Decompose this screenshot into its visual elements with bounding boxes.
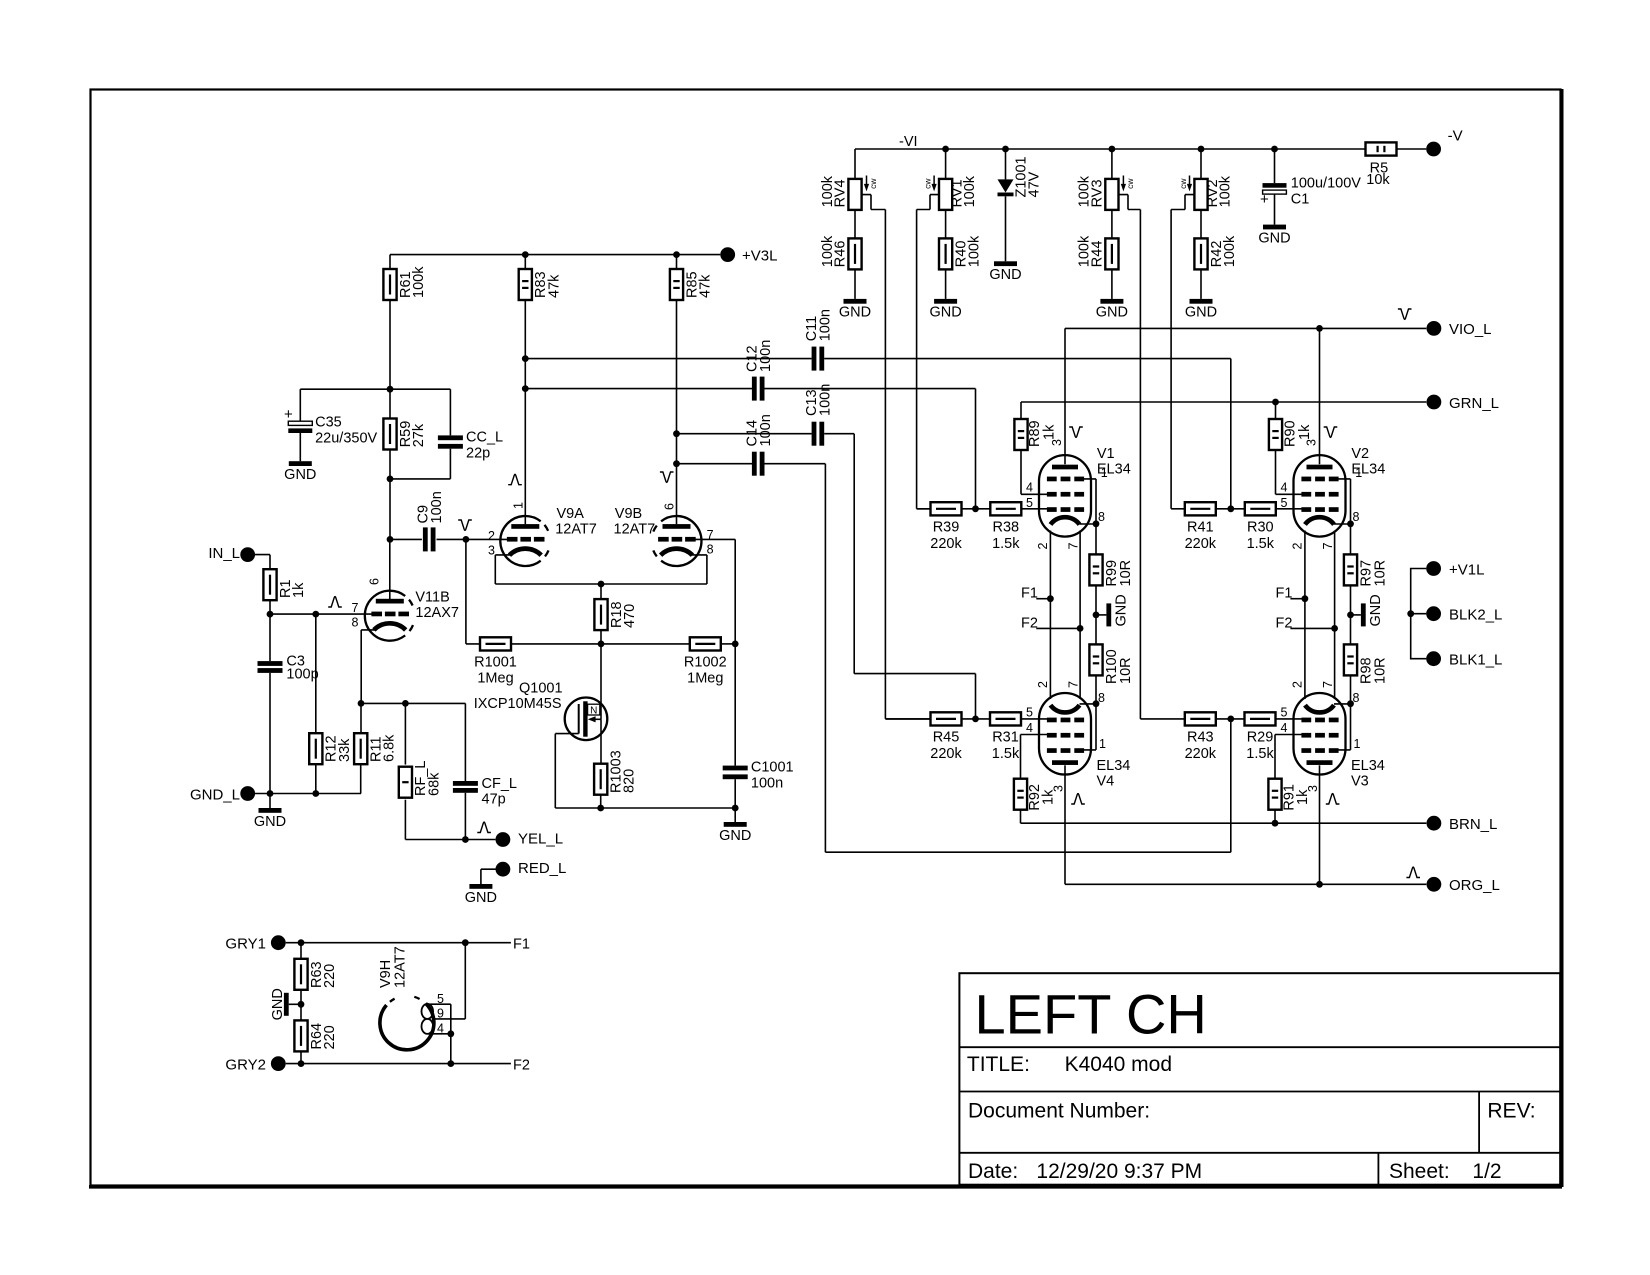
net label F2 xyxy=(1021,615,1038,631)
wire V1 pin7 heater lead xyxy=(1079,531,1081,700)
ground xyxy=(989,261,1021,283)
svg-text:IXCP10M45S: IXCP10M45S xyxy=(474,696,562,712)
svg-text:EL34: EL34 xyxy=(1097,758,1131,774)
svg-text:100k: 100k xyxy=(1077,235,1093,267)
wire GRY1 to R63 xyxy=(300,943,302,959)
resistor R63 xyxy=(294,959,338,990)
svg-text:F1: F1 xyxy=(1021,586,1038,602)
svg-text:R43: R43 xyxy=(1187,730,1214,746)
svg-text:820: 820 xyxy=(622,769,638,793)
wire R40 to ground xyxy=(945,269,947,299)
potentiometer RV3 xyxy=(1077,175,1135,210)
wire Q1001 gate return xyxy=(555,734,600,808)
wire R97 to gnd node xyxy=(1350,585,1352,646)
terminal GRY1 xyxy=(225,935,285,952)
svg-text:R31: R31 xyxy=(992,730,1019,746)
svg-text:1k: 1k xyxy=(1042,424,1058,440)
svg-text:100k: 100k xyxy=(1222,235,1238,267)
wire RF_L bottom xyxy=(404,800,406,840)
wire -VI rail xyxy=(855,148,1366,150)
wire F1 line xyxy=(286,942,511,944)
wire node to C35 branch xyxy=(300,388,450,390)
wire grid line V4 xyxy=(885,718,930,720)
wire RV3 to R44 xyxy=(1111,210,1113,239)
svg-text:+V1L: +V1L xyxy=(1449,561,1484,578)
svg-text:220k: 220k xyxy=(1185,536,1217,552)
label V11B 12AX7 xyxy=(415,590,459,622)
svg-text:ORG_L: ORG_L xyxy=(1449,877,1500,894)
terminal BLK1_L xyxy=(1426,651,1502,668)
junction xyxy=(1227,505,1234,512)
svg-text:GND: GND xyxy=(1258,230,1290,246)
svg-text:100k: 100k xyxy=(411,266,427,298)
tube V9H heater xyxy=(378,946,434,1049)
wire V2 pin7 heater lead xyxy=(1334,531,1336,700)
junction xyxy=(732,641,739,648)
pin labels V3 xyxy=(1281,681,1361,792)
terminal IN_L xyxy=(208,545,255,562)
wire R1002 right xyxy=(721,643,735,645)
wire cathode feedback line xyxy=(361,702,465,704)
label R91 1k xyxy=(1282,784,1312,811)
wire R90 to pin4 xyxy=(1276,450,1302,494)
svg-text:6.8k: 6.8k xyxy=(382,734,398,762)
svg-text:6: 6 xyxy=(368,578,382,585)
capacitor C1001 xyxy=(723,760,794,792)
svg-text:GND: GND xyxy=(929,305,961,321)
wire V4 pin4 to R92 xyxy=(1021,735,1048,779)
wire V3 cathode stub xyxy=(1334,703,1351,705)
ground xyxy=(839,299,871,321)
svg-text:1: 1 xyxy=(512,502,526,509)
svg-text:cw: cw xyxy=(1125,178,1135,189)
junction xyxy=(462,836,469,843)
svg-text:CF_L: CF_L xyxy=(482,776,517,792)
svg-text:1.5k: 1.5k xyxy=(992,746,1020,762)
svg-text:LEFT CH: LEFT CH xyxy=(975,983,1207,1046)
wire V3 plate to ORG_L xyxy=(1319,765,1321,884)
wire V11B cathode xyxy=(361,630,375,704)
tube V1 xyxy=(1039,455,1091,536)
resistor R1002 xyxy=(690,637,721,650)
junction xyxy=(298,939,305,946)
wire R30 to V2 pin5 xyxy=(1276,508,1302,510)
resistor R1 xyxy=(263,569,307,600)
wire V1 plate to VIO_L xyxy=(1064,328,1066,464)
pin labels V4 xyxy=(1026,681,1106,792)
label V1 EL34 xyxy=(1097,446,1131,478)
svg-text:1.5k: 1.5k xyxy=(1246,746,1274,762)
wire CF_L bottom xyxy=(464,793,466,840)
svg-text:100n: 100n xyxy=(758,414,774,446)
wire R90 top xyxy=(1275,402,1277,419)
svg-text:100k: 100k xyxy=(1077,175,1093,207)
svg-text:cw: cw xyxy=(923,178,933,189)
pin labels V11B xyxy=(352,578,382,630)
pin labels V2 xyxy=(1281,439,1363,550)
label R89 1k xyxy=(1027,420,1058,447)
junction xyxy=(1302,595,1309,602)
wire BRN_L line xyxy=(1021,822,1427,824)
resistor R42 xyxy=(1194,235,1238,269)
title text LEFT CH xyxy=(975,983,1207,1046)
wire grid line V1 xyxy=(917,508,931,510)
svg-text:100n: 100n xyxy=(818,384,834,416)
junction xyxy=(463,536,470,543)
wire feedback bottom line xyxy=(405,839,495,841)
waveform icon xyxy=(477,822,491,832)
svg-text:1k: 1k xyxy=(1295,789,1311,805)
wire cathode line to CF_L xyxy=(464,703,466,781)
capacitor C13 xyxy=(804,384,834,446)
wire cathode to R99 xyxy=(1095,524,1097,555)
wire cathode bus xyxy=(495,583,707,585)
junction xyxy=(522,251,529,258)
svg-text:220k: 220k xyxy=(1185,746,1217,762)
svg-text:V3: V3 xyxy=(1351,774,1369,790)
label R99 10R xyxy=(1104,560,1134,587)
svg-text:GND: GND xyxy=(254,814,286,830)
svg-text:BLK2_L: BLK2_L xyxy=(1449,607,1502,624)
svg-text:BRN_L: BRN_L xyxy=(1449,816,1497,833)
terminal BLK2_L xyxy=(1426,606,1502,623)
wire RV1 wiper net xyxy=(917,195,939,509)
net label F2 xyxy=(513,1057,530,1073)
svg-text:100u/100V: 100u/100V xyxy=(1291,176,1361,192)
wire R18 bottom xyxy=(600,630,602,644)
wire V3 pin4 to R91 xyxy=(1275,735,1302,780)
svg-text:47k: 47k xyxy=(546,274,562,298)
junction xyxy=(267,611,274,618)
junction xyxy=(673,460,680,467)
svg-text:F1: F1 xyxy=(513,936,530,952)
document number row xyxy=(968,1100,1536,1123)
capacitor C11 xyxy=(804,309,834,371)
svg-text:GND: GND xyxy=(465,890,497,906)
wire F2 stub xyxy=(1290,627,1334,629)
svg-text:K4040 mod: K4040 mod xyxy=(1065,1053,1172,1076)
ground xyxy=(929,299,961,321)
wire F1 stub xyxy=(1290,598,1305,600)
svg-text:7: 7 xyxy=(1067,543,1081,550)
bracket +V1L BLK xyxy=(1411,569,1427,659)
resistor R40 xyxy=(939,235,983,269)
svg-text:220: 220 xyxy=(322,964,338,988)
wire RV4 to R46 xyxy=(854,210,856,239)
label R92 1k xyxy=(1027,784,1057,811)
terminal ORG_L xyxy=(1427,877,1500,894)
junction xyxy=(1002,146,1009,153)
wire F2 line xyxy=(286,1063,511,1065)
svg-text:F2: F2 xyxy=(513,1057,530,1073)
net label F1 xyxy=(513,936,530,952)
terminal YEL_L xyxy=(496,831,564,848)
svg-text:2: 2 xyxy=(1036,543,1050,550)
resistor R46 xyxy=(820,235,862,269)
junction xyxy=(298,1060,305,1067)
svg-text:1: 1 xyxy=(1355,466,1362,480)
wire C9 to V9A grid xyxy=(437,538,508,540)
svg-text:+: + xyxy=(284,406,293,423)
junction xyxy=(1347,612,1354,619)
svg-text:7: 7 xyxy=(352,601,359,615)
schematic border frame xyxy=(89,89,1562,1187)
transistor Q1001 xyxy=(565,698,608,741)
junction xyxy=(598,581,605,588)
svg-text:12AT7: 12AT7 xyxy=(555,522,597,538)
resistor R64 xyxy=(294,1020,338,1051)
wire RV2 to R42 xyxy=(1200,210,1202,239)
svg-text:VIO_L: VIO_L xyxy=(1449,321,1492,338)
tube V11B xyxy=(365,591,413,641)
wire GRN_L line xyxy=(1021,401,1426,403)
svg-text:+: + xyxy=(1260,191,1269,208)
junction xyxy=(387,386,394,393)
wire R29 to V3 pin5 xyxy=(1276,718,1302,720)
wire R64 to GRY2 xyxy=(300,1051,302,1063)
waveform icon xyxy=(1398,309,1412,319)
capacitor C9 xyxy=(415,491,445,551)
resistor R59 xyxy=(383,419,427,450)
pin labels V9B xyxy=(663,503,714,556)
svg-text:Document Number:: Document Number: xyxy=(968,1100,1150,1123)
svg-text:C1: C1 xyxy=(1291,192,1310,208)
wire GND_L ground stub xyxy=(269,794,271,809)
svg-text:10k: 10k xyxy=(1366,172,1390,188)
wire V9H pin9 to F1 xyxy=(433,943,465,1019)
capacitor C1 xyxy=(1260,176,1361,209)
junction xyxy=(387,476,394,483)
svg-text:100n: 100n xyxy=(429,491,445,523)
svg-text:2: 2 xyxy=(1036,681,1050,688)
wire C3 bottom xyxy=(269,673,271,794)
svg-text:100p: 100p xyxy=(286,667,318,683)
svg-text:GND: GND xyxy=(839,305,871,321)
label R1001 1Meg xyxy=(474,655,517,687)
junction xyxy=(462,939,469,946)
wire R5 to -V xyxy=(1397,148,1427,150)
terminal GRY2 xyxy=(225,1056,285,1073)
junction xyxy=(972,716,979,723)
pin labels V1 xyxy=(1026,439,1108,550)
junction xyxy=(1227,716,1234,723)
svg-text:8: 8 xyxy=(1353,691,1360,705)
terminal GRN_L xyxy=(1427,395,1500,412)
tube V3 xyxy=(1294,693,1346,775)
resistor R100 xyxy=(1089,644,1102,675)
svg-text:100k: 100k xyxy=(962,175,978,207)
svg-text:GRN_L: GRN_L xyxy=(1449,395,1499,412)
terminal GND_L xyxy=(190,786,255,803)
junction xyxy=(267,790,274,797)
resistor R11 xyxy=(354,733,398,764)
label R5 10k xyxy=(1366,161,1390,189)
svg-text:6: 6 xyxy=(663,503,677,510)
svg-text:5: 5 xyxy=(1281,706,1288,720)
junction xyxy=(312,790,319,797)
svg-text:1: 1 xyxy=(1101,466,1108,480)
wire R12 column xyxy=(315,614,317,733)
svg-text:V2: V2 xyxy=(1351,446,1369,462)
svg-text:1Meg: 1Meg xyxy=(477,670,513,686)
waveform icon xyxy=(328,597,342,607)
svg-text:R29: R29 xyxy=(1247,730,1274,746)
svg-text:V11B: V11B xyxy=(415,590,449,606)
wire RV3 wiper net xyxy=(1119,195,1186,719)
svg-text:220k: 220k xyxy=(930,536,962,552)
svg-text:N: N xyxy=(590,705,597,716)
junction xyxy=(447,1060,454,1067)
svg-text:R30: R30 xyxy=(1247,520,1274,536)
wire rail to Z1001 xyxy=(1005,149,1007,179)
resistor R30 xyxy=(1245,502,1276,552)
wire R43 to R29 xyxy=(1216,718,1245,720)
wire V1 cathode stub xyxy=(1080,523,1097,525)
potentiometer RV4 xyxy=(820,175,878,210)
svg-text:GND: GND xyxy=(989,267,1021,283)
svg-text:1Meg: 1Meg xyxy=(687,670,723,686)
svg-text:1.5k: 1.5k xyxy=(992,536,1020,552)
svg-text:cw: cw xyxy=(1178,178,1188,189)
svg-text:10R: 10R xyxy=(1373,657,1389,684)
wire V9B grid right xyxy=(695,538,735,540)
junction xyxy=(673,430,680,437)
svg-text:220: 220 xyxy=(322,1025,338,1049)
wire V1 pin1 stub xyxy=(1083,479,1096,524)
svg-text:7: 7 xyxy=(1067,681,1081,688)
junction xyxy=(972,505,979,512)
svg-text:68k: 68k xyxy=(426,772,442,796)
junction xyxy=(1407,610,1414,617)
wire RV4 wiper net xyxy=(862,195,931,719)
svg-text:12/29/20 9:37 PM: 12/29/20 9:37 PM xyxy=(1036,1160,1202,1183)
wire rail to RV1 xyxy=(945,149,947,179)
terminal +V1L xyxy=(1426,561,1484,578)
wire GND_L line xyxy=(255,793,361,795)
wire R91 to BRN_L xyxy=(1274,810,1276,824)
capacitor CF_L xyxy=(453,776,517,808)
resistor R83 xyxy=(519,269,563,300)
resistor R41 xyxy=(1185,502,1217,552)
junction xyxy=(1316,881,1323,888)
svg-text:R1001: R1001 xyxy=(474,655,517,671)
wire R12 to GND_L line xyxy=(315,765,317,794)
wire rail to C1 xyxy=(1274,149,1276,183)
junction xyxy=(1198,146,1205,153)
svg-text:1k: 1k xyxy=(1041,789,1057,805)
wire V2 plate to VIO_L xyxy=(1319,328,1321,464)
wire rail to R85 xyxy=(676,255,678,269)
potentiometer RV2 xyxy=(1178,175,1234,210)
svg-text:8: 8 xyxy=(1353,510,1360,524)
wire R41 to R30 xyxy=(1216,508,1245,510)
svg-text:+V3L: +V3L xyxy=(742,247,777,264)
junction xyxy=(1272,820,1279,827)
wire V2 pin2 heater lead xyxy=(1304,531,1306,700)
svg-text:GRY1: GRY1 xyxy=(225,935,266,952)
svg-text:8: 8 xyxy=(1098,691,1105,705)
waveform icon xyxy=(1326,794,1340,804)
wire R89 to pin4 xyxy=(1021,450,1047,494)
wire V4 plate to ORG_L xyxy=(1064,765,1066,884)
wire R45 to R31 xyxy=(962,718,991,720)
wire V3 pin1 stub xyxy=(1338,704,1351,750)
wire grid line V11B xyxy=(270,613,372,615)
wire RV2 wiper net xyxy=(1171,195,1194,509)
wire net C13 xyxy=(677,434,976,719)
ground xyxy=(284,461,316,483)
terminal VIO_L xyxy=(1427,321,1492,338)
capacitor C35 xyxy=(284,406,378,447)
wire net C11 xyxy=(525,359,1231,509)
wire V9B cathode xyxy=(692,555,707,584)
wire R18 node to Q1001 drain xyxy=(600,644,602,719)
resistor R97 xyxy=(1344,554,1357,585)
date row xyxy=(968,1160,1502,1183)
svg-text:100n: 100n xyxy=(818,309,834,341)
capacitor CC_L xyxy=(438,430,503,462)
wire R38 to V1 pin5 xyxy=(1021,508,1047,510)
wire R99 to gnd node xyxy=(1095,585,1097,646)
wire IN_L to R1 xyxy=(255,555,270,570)
junction xyxy=(1093,612,1100,619)
resistor R98 xyxy=(1344,644,1357,675)
junction xyxy=(1271,146,1278,153)
wire V9A cathode xyxy=(495,555,510,584)
terminal BRN_L xyxy=(1427,816,1498,833)
label EL34 V3 xyxy=(1351,758,1385,790)
wire ORG_L line xyxy=(1065,883,1426,885)
wire V9H pin4 xyxy=(428,1033,451,1035)
resistor R5 xyxy=(1366,142,1397,155)
wire rail to RV3 xyxy=(1111,149,1113,179)
wire cathode to R97 xyxy=(1350,524,1352,555)
wire V11B plate to C9 node xyxy=(389,539,391,599)
resistor R45 xyxy=(930,712,962,762)
wire grid node down to R1001 xyxy=(466,539,480,644)
svg-text:12AT7: 12AT7 xyxy=(614,522,656,538)
svg-text:47V: 47V xyxy=(1027,171,1043,197)
wire V2 pin1 stub xyxy=(1338,479,1351,524)
wire rail to RV4 xyxy=(854,149,856,179)
resistor RF_L xyxy=(399,761,443,798)
wire R98 to V3 cathode xyxy=(1350,675,1352,704)
wire R1003 to bottom node xyxy=(600,794,602,808)
net label -VI xyxy=(899,134,918,150)
wire node to C9 xyxy=(390,538,422,540)
resistor R91 xyxy=(1268,779,1281,810)
resistor R18 xyxy=(594,599,638,630)
svg-text:1k: 1k xyxy=(1297,424,1313,440)
wire RF_L top xyxy=(404,703,406,764)
ground xyxy=(1351,594,1385,626)
pin labels V9H xyxy=(437,992,444,1035)
junction xyxy=(1109,146,1116,153)
label EL34 V4 xyxy=(1097,758,1131,790)
wire R39 to R38 xyxy=(962,508,991,510)
wire VIO_L line xyxy=(1065,327,1426,329)
svg-text:100n: 100n xyxy=(758,340,774,372)
svg-text:Q1001: Q1001 xyxy=(519,681,563,697)
wire V4 pin1 stub xyxy=(1083,704,1096,750)
svg-text:cw: cw xyxy=(868,178,878,189)
net label F1 xyxy=(1276,586,1293,602)
wire net C12 xyxy=(525,389,975,509)
net label F2 xyxy=(1276,615,1293,631)
svg-text:GND: GND xyxy=(1185,305,1217,321)
svg-text:10R: 10R xyxy=(1118,657,1134,684)
svg-text:BLK1_L: BLK1_L xyxy=(1449,652,1502,669)
